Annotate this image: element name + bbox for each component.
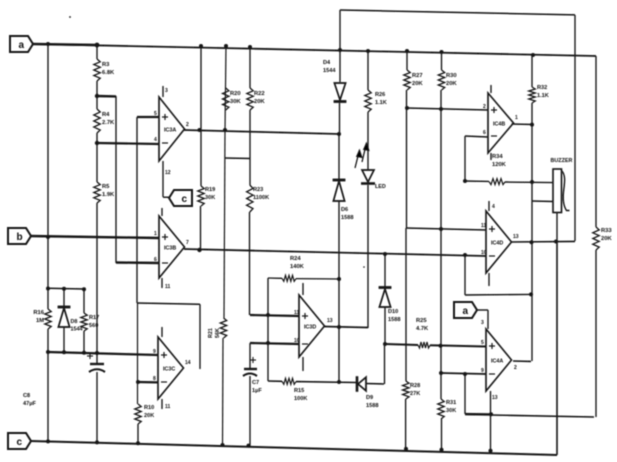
svg-text:R22: R22 [254,91,265,97]
svg-text:10: 10 [294,338,300,344]
wire IC4D noninverting row [406,228,486,230]
svg-text:2.7K: 2.7K [102,120,115,126]
wire D10 column top [384,254,386,287]
svg-text:7: 7 [186,240,189,246]
svg-text:2: 2 [514,365,517,371]
svg-text:IC3B: IC3B [164,246,176,252]
resistor R20 [223,88,242,110]
svg-text:D9: D9 [366,395,373,401]
wire R27 column top [406,51,408,70]
wire column to C8 [96,203,98,363]
wire right bus vertical with R33 [595,56,597,417]
wire D6 column [338,134,340,179]
resistor R23 [247,185,270,212]
node a tag (input) [10,36,97,52]
diode D10 [379,288,401,323]
wire R30 column down [440,90,442,373]
svg-text:LED: LED [375,184,386,190]
svg-text:D10: D10 [388,309,398,315]
capacitor C7 [243,343,262,446]
wire IC3A inverting row [97,143,159,144]
wire top feedback line [340,10,575,15]
svg-text:D8: D8 [71,319,78,325]
svg-text:2: 2 [483,104,486,110]
wire R4-R5 link [96,133,98,182]
svg-text:R19: R19 [205,187,215,193]
wire IC4D power stubs [489,201,495,286]
svg-text:20K: 20K [412,81,423,87]
svg-text:R23: R23 [253,187,263,193]
svg-text:120K: 120K [492,162,507,168]
svg-text:R10: R10 [144,405,154,411]
resistor R3 [94,59,115,81]
svg-text:R21: R21 [208,328,214,338]
svg-text:1µF: 1µF [252,388,262,394]
svg-text:c: c [182,194,188,205]
op-amp IC3B [154,216,189,278]
wire column R3 top [96,45,98,59]
svg-text:R33: R33 [601,228,612,234]
node c tag (ground) [8,241,557,455]
op-amp IC4A [481,329,517,391]
resistor R34 [465,154,553,185]
speck [69,16,365,268]
svg-text:R24: R24 [290,256,301,262]
wire D10 to R25 row [384,307,386,344]
wire IC3B output row [184,249,486,256]
wire column R20/R21 [223,46,227,446]
svg-text:8: 8 [153,376,156,382]
node b tag (input) [8,228,159,244]
wire IC3A noninverting branch [137,117,159,303]
wire IC4D output row [511,240,576,243]
svg-text:IC3C: IC3C [163,367,175,373]
wire column R19 [200,46,203,250]
svg-text:20K: 20K [601,236,612,242]
svg-text:R31: R31 [446,400,456,406]
svg-text:R26: R26 [375,92,385,98]
op-amp IC4D [481,211,519,273]
wire IC3A output row [184,130,339,134]
svg-text:1588: 1588 [388,317,400,323]
svg-text:14: 14 [185,360,191,366]
resistor R15 [268,378,307,402]
wire IC3D output row [324,327,368,328]
wire IC4B inverting row [465,136,488,181]
svg-text:10: 10 [481,250,487,256]
wire feedback bus vertical [531,55,533,361]
svg-text:5: 5 [481,340,484,346]
svg-text:140K: 140K [290,264,305,270]
svg-text:R15: R15 [294,388,304,394]
svg-text:30K: 30K [446,408,456,414]
svg-text:R28: R28 [410,383,420,389]
svg-text:11: 11 [165,404,171,410]
wire R30 column top [441,52,443,70]
wire R3/R4 junction bracket [97,96,116,263]
resistor R30 [438,70,457,90]
svg-text:6: 6 [154,257,157,263]
wire R27 column down [406,90,408,228]
wire buzzer upper tap [532,200,553,203]
node c tag (mid) [163,190,192,206]
svg-text:1M: 1M [36,318,44,324]
svg-text:4: 4 [154,137,157,143]
svg-text:a: a [19,40,25,51]
wire to pin13 column [465,413,491,415]
wire reference row to IC3C+ [48,352,158,355]
wire D4 to output row [339,103,341,134]
svg-text:R32: R32 [537,85,547,91]
svg-text:1.1K: 1.1K [537,93,549,99]
svg-text:3: 3 [481,320,484,326]
wire D9 to D10 column [366,344,385,384]
svg-text:12: 12 [165,170,171,176]
svg-text:1588: 1588 [341,215,353,221]
wire IC3B power stubs [162,208,171,290]
svg-text:20K: 20K [446,81,457,87]
resistor R16 [33,309,51,329]
svg-text:R27: R27 [412,73,423,79]
svg-text:13: 13 [513,234,519,240]
svg-text:c: c [17,437,23,448]
svg-text:20K: 20K [254,99,265,105]
svg-text:27K: 27K [410,391,420,397]
wire pin13 ground column [490,391,492,454]
resistor R17 [81,289,99,353]
svg-text:47µF: 47µF [23,401,36,407]
wire top line drop [339,10,341,82]
resistor R19 [198,186,215,206]
svg-text:D6: D6 [341,207,348,213]
svg-text:30K: 30K [205,195,215,201]
svg-text:20K: 20K [144,413,154,419]
op-amp IC3D [294,295,333,357]
wire divider top bracket [48,287,84,290]
wire to IC3B inverting input [116,261,159,264]
capacitor C8 [23,353,105,443]
svg-text:11: 11 [294,310,300,316]
wire tap R21 to R23 [225,157,250,160]
wire R26 to LED [367,112,369,170]
svg-text:R16: R16 [33,310,44,316]
svg-text:R3: R3 [102,62,110,68]
resistor R24 [268,256,339,281]
wire column to R10 [137,303,139,404]
svg-text:R25: R25 [416,318,427,324]
svg-text:a: a [463,306,469,317]
svg-text:4: 4 [492,204,495,210]
wire inverting feedback drop [464,374,466,414]
wire bottom-right return row [465,415,594,418]
wire R10 to ground row [137,424,139,444]
svg-text:R20: R20 [230,91,241,97]
resistor R4 [94,109,115,133]
wire IC4B noninverting row [407,108,488,110]
resistor R26 [365,90,387,112]
op-amp IC4B [483,93,518,153]
wire IC4B power stubs [490,85,492,160]
diode D9 [357,376,378,409]
svg-text:5: 5 [154,111,157,117]
svg-text:11: 11 [165,284,171,290]
wire left vertical column [47,44,49,442]
svg-text:1: 1 [515,115,518,121]
svg-text:9: 9 [153,349,156,355]
node a tag (mid) [454,302,498,401]
svg-text:1100K: 1100K [253,195,269,201]
wire IC4A output [513,360,531,362]
wire IC4A inverting row [441,373,486,374]
wire IC3D inverting row [250,343,299,344]
resistor R31 [438,373,456,452]
LED D5 [355,143,386,190]
resistor R5 [94,182,115,203]
wire column R22/R23 [249,47,252,315]
svg-text:30K: 30K [230,99,241,105]
svg-text:3: 3 [165,88,168,94]
wire to D9 [296,381,356,384]
svg-text:13: 13 [327,318,333,324]
svg-text:4.7K: 4.7K [416,326,429,332]
op-amp IC3A [154,97,189,161]
wire right outer vertical [574,15,576,241]
resistor R22 [247,88,266,110]
svg-text:56K: 56K [215,328,221,338]
diode D8 [58,289,83,352]
svg-text:1.1K: 1.1K [375,100,387,106]
svg-text:R30: R30 [446,73,457,79]
wire IC3A power stubs [163,86,171,197]
svg-text:2: 2 [186,122,189,128]
svg-text:IC3A: IC3A [164,128,176,134]
wire comparator link row [465,255,531,295]
wire R24 vertical [267,278,269,381]
op-amp IC3C [153,337,191,399]
svg-text:1.9K: 1.9K [102,192,115,198]
svg-text:IC4D: IC4D [491,241,503,247]
svg-text:1544: 1544 [71,327,83,333]
resistor R10 [135,404,154,424]
svg-text:R5: R5 [102,184,110,190]
wire IC4B output [512,123,534,126]
svg-text:b: b [17,232,23,243]
svg-text:IC3D: IC3D [304,325,316,331]
node a bus (top row) [33,44,596,56]
wire R28 column [405,228,407,381]
wire IC3C inverting row [138,381,158,384]
resistor R25 [385,318,486,348]
svg-text:100K: 100K [294,396,307,402]
svg-text:R34: R34 [492,154,503,160]
svg-text:C8: C8 [23,393,30,399]
resistor R21 [208,318,227,338]
resistor R28 [403,381,421,450]
wire buzzer bottom column [556,213,558,456]
wire IC3D noninverting row [250,315,299,316]
svg-text:IC4A: IC4A [491,359,503,365]
wire buffer feedback corner [137,303,200,369]
resistor R32 [529,85,549,103]
svg-text:9: 9 [481,368,484,374]
svg-text:11: 11 [481,223,487,229]
resistor R33 [593,227,613,250]
wire D6 to D9 row [338,201,340,382]
wire IC3C power stubs [162,327,171,410]
wire R3-R4 link [96,81,98,109]
svg-text:6: 6 [483,130,486,136]
svg-text:1588: 1588 [366,403,378,409]
svg-text:1: 1 [154,231,157,237]
svg-text:BUZZER: BUZZER [551,158,573,164]
svg-text:IC4B: IC4B [493,122,505,128]
diode D6 [333,180,354,221]
svg-text:13: 13 [492,395,498,401]
resistor R27 [404,70,424,90]
svg-text:6.8K: 6.8K [102,70,115,76]
wire IC3D power stubs [302,283,304,371]
wire LED to IC3D output [367,185,369,328]
buzzer BZ1 [551,158,573,213]
svg-text:1544: 1544 [323,68,336,74]
svg-text:R17: R17 [89,315,99,321]
wire LED column top [367,51,369,90]
svg-text:D4: D4 [323,60,331,66]
svg-text:C7: C7 [252,380,259,386]
diode D4 [323,60,346,102]
svg-text:R4: R4 [102,112,110,118]
